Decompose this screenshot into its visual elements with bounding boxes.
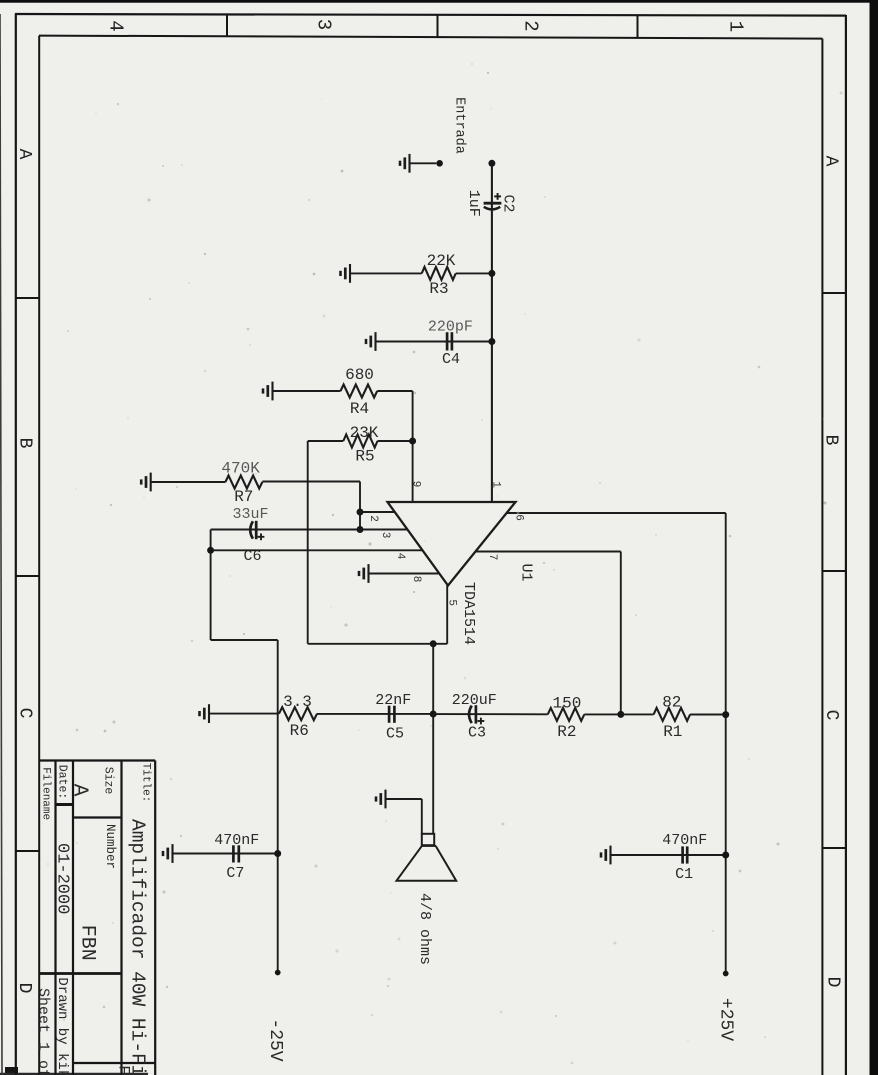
zone tick marks right bbox=[822, 292, 846, 294]
wire C7 row bbox=[173, 853, 278, 855]
svg-text:R6: R6 bbox=[290, 722, 309, 740]
speaker LS1 4/8 ohms bbox=[397, 834, 457, 881]
node +25V terminal bbox=[723, 971, 729, 977]
ground (R3) bbox=[341, 264, 351, 283]
svg-text:R4: R4 bbox=[350, 400, 369, 418]
svg-text:1: 1 bbox=[724, 21, 746, 32]
wire pin 8 bbox=[369, 573, 440, 575]
svg-text:B: B bbox=[15, 438, 35, 449]
node R3/input junction bbox=[488, 270, 495, 277]
svg-text:TDA1514: TDA1514 bbox=[460, 582, 477, 645]
node C1 rail junction bbox=[722, 852, 729, 859]
wire R5 left bbox=[308, 440, 344, 442]
capacitor C6 33uF electrolytic bbox=[250, 521, 253, 538]
capacitor C7 470nF bbox=[233, 845, 238, 862]
svg-text:D: D bbox=[14, 983, 34, 994]
svg-text:4: 4 bbox=[104, 20, 126, 31]
svg-text:680: 680 bbox=[345, 366, 374, 384]
wire pin 3 bbox=[360, 529, 408, 531]
svg-text:22nF: 22nF bbox=[375, 692, 411, 709]
svg-text:1: 1 bbox=[490, 481, 502, 488]
wire R3 right bbox=[456, 272, 492, 274]
wire speaker ground bbox=[386, 798, 422, 800]
node output row junction bbox=[430, 711, 437, 718]
svg-text:Filename: Filename bbox=[40, 767, 52, 820]
wire speaker signal bbox=[432, 714, 434, 834]
scan edge bottom-left mark bbox=[5, 1067, 18, 1075]
resistor R4 680 bbox=[341, 385, 378, 398]
svg-text:Drawn by kiko: Drawn by kiko bbox=[54, 977, 70, 1075]
wire C6 left vertical bbox=[210, 530, 212, 641]
resistor R2 150 bbox=[548, 708, 585, 721]
wire R7 left bbox=[151, 481, 226, 483]
wire loop to negative rail bbox=[211, 639, 278, 641]
svg-text:470nF: 470nF bbox=[662, 832, 707, 849]
wire to pin 9 vertical bbox=[412, 391, 414, 502]
ground (R4) bbox=[263, 382, 273, 401]
wire R6 left bbox=[209, 713, 279, 715]
wire pin 7 drop bbox=[620, 552, 622, 715]
svg-text:R3: R3 bbox=[429, 280, 448, 298]
wire positive rail bbox=[725, 513, 727, 974]
svg-text:C2: C2 bbox=[500, 194, 517, 212]
resistor R3 22K bbox=[422, 267, 456, 280]
svg-text:C5: C5 bbox=[386, 726, 404, 743]
zone tick marks left bbox=[16, 297, 39, 299]
svg-text:6: 6 bbox=[513, 514, 525, 521]
wire C3 row bbox=[433, 713, 548, 715]
node pin4 junction bbox=[207, 547, 214, 554]
wire R4 left bbox=[273, 390, 341, 392]
wire R3 left bbox=[350, 272, 422, 274]
ground (C7) bbox=[163, 844, 173, 863]
ground (R6) bbox=[200, 704, 210, 723]
svg-text:-25V: -25V bbox=[265, 1018, 285, 1061]
svg-text:R5: R5 bbox=[355, 448, 374, 466]
svg-text:2: 2 bbox=[519, 20, 541, 31]
capacitor C2 1uF electrolytic bbox=[484, 202, 502, 205]
svg-text:9: 9 bbox=[410, 481, 422, 488]
svg-text:220pF: 220pF bbox=[428, 318, 473, 335]
svg-text:R2: R2 bbox=[557, 723, 576, 741]
wire feedback loop vertical bbox=[307, 441, 309, 644]
wire R7 right bbox=[262, 481, 360, 483]
svg-text:C7: C7 bbox=[226, 865, 244, 882]
resistor R6 3.3 bbox=[279, 707, 317, 720]
op-amp U1 TDA1514 triangle bbox=[388, 502, 516, 586]
svg-text:4: 4 bbox=[394, 553, 406, 560]
wire R5 right bbox=[378, 440, 413, 442]
ground (R7) bbox=[141, 473, 151, 492]
svg-text:8: 8 bbox=[410, 576, 422, 583]
ground (pin 8) bbox=[359, 564, 369, 583]
svg-text:B: B bbox=[821, 435, 841, 446]
node R5/R4 feedback junction bbox=[409, 438, 416, 445]
wire C1 row bbox=[611, 854, 726, 856]
svg-text:Title:: Title: bbox=[140, 763, 152, 803]
node pin3 junction bbox=[357, 526, 364, 533]
wire pin 7 bbox=[476, 551, 621, 553]
svg-text:C: C bbox=[15, 708, 35, 719]
svg-text:470K: 470K bbox=[221, 460, 260, 478]
svg-text:C4: C4 bbox=[442, 351, 460, 368]
svg-text:22K: 22K bbox=[427, 252, 456, 270]
wire C6 row bbox=[211, 529, 360, 531]
node C4 junction bbox=[488, 338, 495, 345]
capacitor C3 220uF electrolytic bbox=[469, 706, 472, 724]
svg-text:D: D bbox=[823, 977, 843, 988]
wire pin 4 bbox=[211, 549, 423, 551]
node positive rail junction bbox=[722, 711, 729, 718]
svg-text:23K: 23K bbox=[350, 424, 379, 442]
node C2 top bbox=[488, 160, 495, 167]
wire pin 6 bbox=[507, 512, 726, 514]
node -25V terminal bbox=[275, 970, 281, 976]
resistor R1 82 bbox=[654, 708, 691, 721]
wire R1 right bbox=[690, 714, 726, 716]
capacitor C1 470nF bbox=[683, 846, 688, 863]
svg-text:1uF: 1uF bbox=[465, 190, 482, 217]
wire R6 to C5 bbox=[317, 713, 433, 715]
wire R4 right bbox=[377, 390, 412, 392]
svg-text:4/8 ohms: 4/8 ohms bbox=[416, 893, 433, 965]
wire C4 left bbox=[376, 341, 492, 343]
wire negative rail bbox=[277, 640, 279, 973]
svg-text:33uF: 33uF bbox=[232, 506, 268, 523]
wire output drop bbox=[432, 644, 434, 714]
node output junction bbox=[430, 640, 437, 647]
svg-text:F: F bbox=[115, 1065, 133, 1075]
scan edge top black strip bbox=[0, 0, 878, 3]
svg-text:A: A bbox=[821, 156, 841, 167]
svg-text:FBN: FBN bbox=[76, 925, 99, 961]
wire pin 5 output bbox=[446, 585, 448, 644]
node Entrada input terminal bbox=[436, 160, 443, 167]
svg-text:3.3: 3.3 bbox=[283, 693, 312, 711]
svg-text:220uF: 220uF bbox=[452, 692, 497, 709]
ground (C1) bbox=[601, 846, 611, 865]
wire R7 down to pin 2 bbox=[359, 482, 361, 530]
svg-text:Number: Number bbox=[103, 824, 117, 869]
svg-text:7: 7 bbox=[486, 554, 498, 561]
svg-text:Entrada: Entrada bbox=[451, 97, 466, 154]
svg-text:150: 150 bbox=[552, 694, 581, 712]
svg-text:+25V: +25V bbox=[716, 998, 736, 1041]
svg-text:C: C bbox=[821, 710, 841, 721]
svg-text:C1: C1 bbox=[675, 866, 693, 883]
resistor R7 470K bbox=[225, 476, 262, 489]
wire to R1 bbox=[621, 713, 654, 715]
capacitor C4 220pF bbox=[447, 332, 452, 350]
capacitor C5 22nF bbox=[389, 706, 394, 723]
svg-text:Size: Size bbox=[102, 767, 115, 795]
svg-text:Sheet 1 of: Sheet 1 of bbox=[35, 988, 52, 1075]
svg-text:R7: R7 bbox=[234, 488, 253, 506]
svg-text:A: A bbox=[68, 784, 91, 797]
ground (speaker) bbox=[376, 790, 386, 809]
node pin7/row junction bbox=[617, 711, 624, 718]
wire R2 to pin7 node bbox=[584, 713, 621, 715]
ground (C4) bbox=[366, 332, 376, 351]
svg-text:U1: U1 bbox=[518, 563, 535, 581]
wire pin 2 bbox=[360, 511, 395, 513]
title block frame bbox=[39, 761, 155, 1075]
node C7 rail junction bbox=[274, 850, 281, 857]
svg-text:C3: C3 bbox=[468, 725, 486, 742]
node pin2 junction bbox=[357, 509, 364, 516]
svg-text:R1: R1 bbox=[663, 723, 682, 741]
wire feedback loop bottom bbox=[308, 643, 448, 645]
ground (input reference) bbox=[400, 154, 410, 173]
svg-text:01-2000: 01-2000 bbox=[53, 843, 72, 914]
resistor R5 23K bbox=[343, 435, 377, 448]
svg-text:3: 3 bbox=[379, 532, 391, 539]
svg-text:2: 2 bbox=[367, 515, 379, 522]
scan edge right black strip bbox=[870, 0, 878, 1075]
svg-text:82: 82 bbox=[662, 693, 681, 711]
svg-text:470nF: 470nF bbox=[214, 832, 259, 849]
svg-text:Amplificador 40W Hi-Fi: Amplificador 40W Hi-Fi bbox=[126, 819, 148, 1075]
svg-text:Date:: Date: bbox=[56, 765, 69, 800]
wire input vertical to pin 1 bbox=[491, 163, 493, 502]
svg-text:A: A bbox=[14, 149, 34, 160]
svg-text:3: 3 bbox=[312, 19, 334, 30]
zone tick marks top bbox=[16, 14, 846, 851]
